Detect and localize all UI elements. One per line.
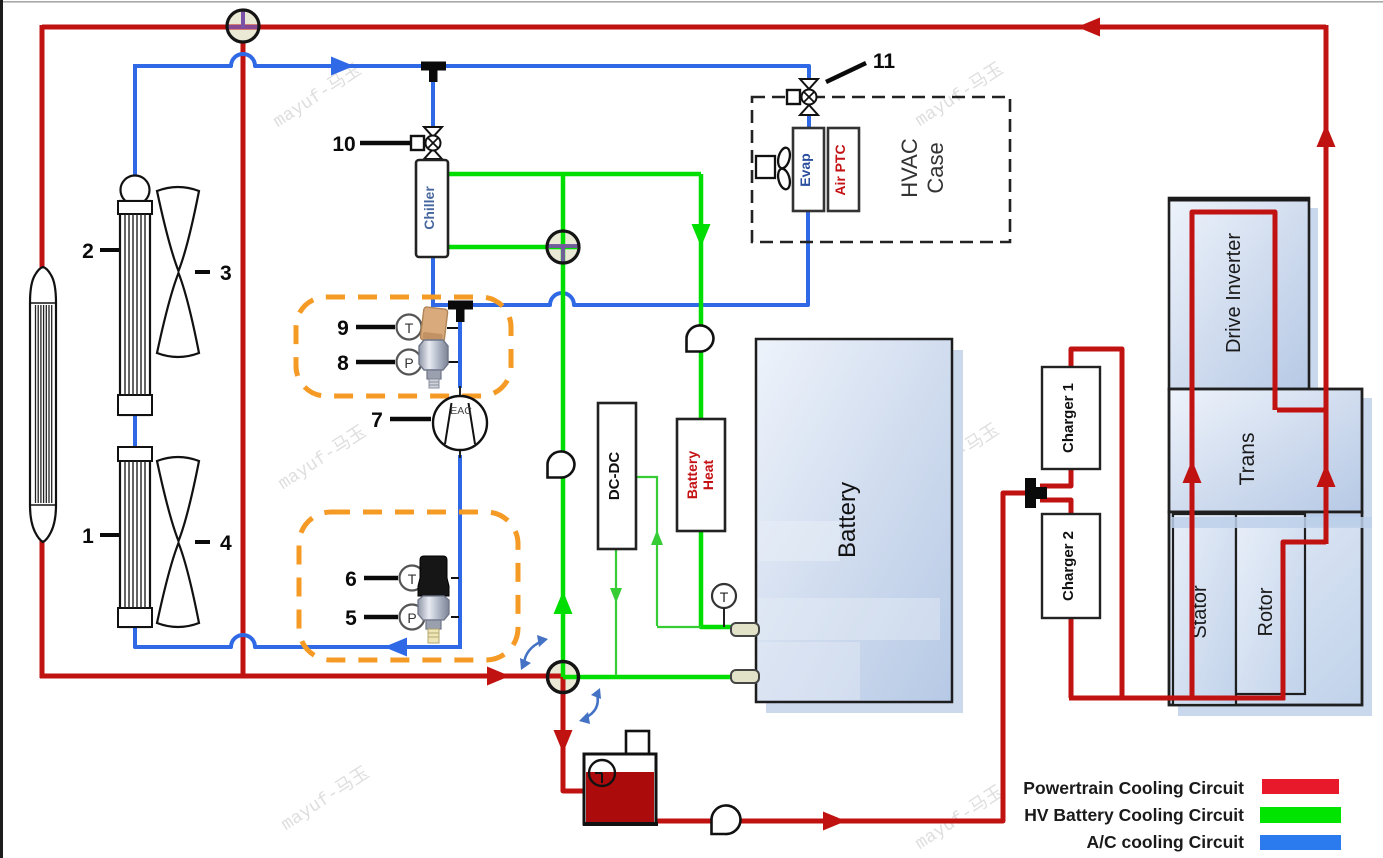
- fan 4: [157, 457, 199, 627]
- wire green junction to lower nozzle: [563, 675, 735, 680]
- arrow red left on top line: [1077, 18, 1100, 37]
- label 2: [100, 248, 119, 252]
- battery nozzle lower: [731, 670, 759, 683]
- label 7: [390, 417, 431, 422]
- svg-text:HVACCase: HVACCase: [897, 138, 948, 198]
- wire red left vertical upper: [40, 25, 45, 274]
- arrow red down below junction: [554, 730, 573, 753]
- radiator 1: [118, 447, 152, 627]
- drive inverter shadow: [1178, 208, 1318, 399]
- sensor tick 5: [451, 616, 459, 618]
- chiller: [416, 160, 448, 257]
- wire blue valve10 stem: [431, 80, 435, 128]
- label 9: [356, 325, 395, 330]
- charger 1 box: [1042, 367, 1100, 469]
- wire green chiller to mix valve: [447, 245, 556, 250]
- wire red bottom horizontal: [40, 674, 563, 679]
- svg-text:T: T: [720, 589, 729, 605]
- battery shadow: [766, 350, 963, 713]
- label 4: [195, 540, 210, 544]
- air ptc box: [828, 128, 859, 211]
- svg-text:T: T: [405, 320, 414, 336]
- sensor tick 8: [447, 361, 458, 363]
- svg-text:3: 3: [220, 262, 232, 285]
- svg-text:Drive Inverter: Drive Inverter: [1223, 233, 1245, 353]
- svg-text:10: 10: [332, 133, 355, 156]
- rotation arrow lower-right of junction: [585, 694, 598, 718]
- condenser receiver-drier: [30, 267, 56, 542]
- svg-text:Evap: Evap: [797, 153, 813, 186]
- sensor tick 6: [451, 577, 459, 579]
- stator box: [1173, 514, 1236, 705]
- arrow thin green up: [651, 530, 663, 545]
- svg-text:Charger 1: Charger 1: [1060, 383, 1077, 453]
- four-way valve circle top: [227, 10, 259, 42]
- svg-text:Chiller: Chiller: [421, 186, 437, 230]
- svg-text:T: T: [408, 571, 417, 587]
- label 1: [100, 533, 119, 537]
- wire red charger2 stub: [1040, 500, 1071, 514]
- label 3: [195, 270, 210, 274]
- drive inverter box U-DI: [1169, 198, 1309, 389]
- orange dashed box lower (sensors 5,6): [299, 512, 518, 660]
- P sensor circle 5: [400, 605, 425, 630]
- label 5: [364, 615, 398, 620]
- wire red bottom bus to rotor: [1069, 696, 1285, 701]
- wire red charger1 top loop: [1071, 349, 1122, 699]
- battery box: [756, 339, 952, 702]
- battery nozzle upper: [731, 623, 759, 636]
- wire red top horizontal: [42, 25, 1326, 30]
- wire red mid vertical: [241, 39, 246, 676]
- label 11: [826, 63, 866, 82]
- rotor box: [1236, 514, 1305, 694]
- wire red junction down to reservoir: [563, 677, 586, 791]
- svg-text:P: P: [407, 610, 416, 626]
- T-block junction chargers: [1025, 478, 1036, 508]
- pump ear green mid: [547, 451, 574, 477]
- svg-text:11: 11: [873, 50, 896, 73]
- charger 2 box: [1042, 514, 1100, 618]
- wire red left vertical lower: [40, 537, 45, 678]
- trans shadow: [1178, 398, 1372, 522]
- EAC compressor 7: [433, 386, 487, 458]
- svg-text:mayuf-马玉: mayuf-马玉: [275, 422, 371, 495]
- wire blue valve11 to evap: [807, 112, 811, 131]
- wire red trans junction horizontal: [1277, 408, 1326, 413]
- wire red right vertical upper: [1324, 25, 1329, 412]
- svg-text:P: P: [404, 355, 413, 371]
- wire thin green lower horizontal: [657, 626, 701, 628]
- arrow blue left on bottom line: [384, 638, 407, 657]
- svg-text:1: 1: [82, 525, 94, 548]
- arrow green down right branch: [692, 224, 711, 247]
- battery heat box: [677, 419, 725, 531]
- wire green battery heat to nozzle: [701, 529, 735, 627]
- wire blue mid horizontal with hump over green: [433, 210, 808, 305]
- frame border left: [0, 0, 3, 858]
- trans box: [1169, 389, 1362, 512]
- svg-text:A/C cooling Circuit: A/C cooling Circuit: [1087, 832, 1245, 852]
- svg-text:8: 8: [337, 352, 349, 375]
- stator rotor outer shadow: [1178, 521, 1372, 716]
- label 6: [364, 576, 398, 581]
- wire red charger1 stub: [1040, 469, 1071, 486]
- blower fan icon: [756, 146, 792, 190]
- svg-text:5: 5: [345, 607, 357, 630]
- svg-text:9: 9: [337, 317, 349, 340]
- svg-text:6: 6: [345, 568, 357, 591]
- wire green chiller top to right: [447, 172, 701, 177]
- wire red charger2 bottom drop: [1069, 617, 1074, 698]
- svg-text:Powertrain Cooling Circuit: Powertrain Cooling Circuit: [1023, 778, 1244, 798]
- wire green right drop to battery heat: [699, 174, 704, 421]
- svg-text:Rotor: Rotor: [1255, 587, 1277, 636]
- svg-text:7: 7: [371, 409, 383, 432]
- wire blue EAC down: [458, 455, 462, 649]
- valve 10: [411, 127, 442, 159]
- P sensor circle 8: [397, 350, 422, 375]
- wire red reservoir to right riser: [655, 493, 1029, 821]
- wire green mix valve vertical: [561, 174, 566, 665]
- pressure sensor icon silver: [419, 340, 448, 388]
- svg-text:mayuf-马玉: mayuf-马玉: [270, 60, 366, 133]
- fan 3: [157, 187, 199, 357]
- pressure sensor icon black: [418, 556, 449, 643]
- svg-text:HV Battery Cooling Circuit: HV Battery Cooling Circuit: [1024, 805, 1244, 825]
- wire thin green dcdc side branch: [636, 477, 657, 626]
- battery T sensor: [712, 584, 736, 608]
- rotation arrow upper-left of junction: [524, 641, 542, 664]
- svg-text:Charger 2: Charger 2: [1060, 531, 1077, 601]
- svg-text:Trans: Trans: [1236, 433, 1259, 486]
- wire blue top horizontal with hump over red: [135, 54, 809, 178]
- pump ear red bottom: [711, 805, 740, 834]
- arrow thin green down: [610, 588, 622, 603]
- valve 11: [787, 79, 818, 115]
- wire blue radiators link: [133, 414, 137, 449]
- arrow green up mix branch: [554, 591, 573, 614]
- radiator 2: [118, 176, 152, 416]
- label 10: [360, 141, 410, 146]
- arrow red up on right vertical: [1317, 124, 1336, 147]
- coolant reservoir: [583, 731, 658, 824]
- arrow red right on bottom-left line: [487, 667, 510, 686]
- T-fitting sensor manifold: [448, 301, 473, 310]
- svg-text:mayuf-马玉: mayuf-马玉: [912, 782, 1008, 855]
- orange dashed box upper (sensors 8,9): [296, 297, 511, 396]
- pump ear green right: [686, 325, 713, 351]
- wire blue bottom horizontal with hump over red: [135, 625, 460, 647]
- wire red right vertical lower: [1324, 408, 1329, 544]
- wire blue chiller down: [431, 255, 435, 307]
- svg-text:mayuf-马玉: mayuf-马玉: [912, 59, 1008, 132]
- svg-text:DC-DC: DC-DC: [606, 452, 623, 500]
- T sensor circle 9: [397, 315, 422, 340]
- svg-text:EAC: EAC: [450, 405, 472, 417]
- frame border top: [3, 1, 1383, 3]
- stator rotor outer box: [1169, 512, 1362, 705]
- evap box: [793, 128, 824, 211]
- arrow red up in stator loop: [1183, 460, 1202, 483]
- svg-text:Air PTC: Air PTC: [832, 144, 848, 195]
- svg-text:2: 2: [82, 240, 94, 263]
- junction valve circle bottom: [548, 662, 579, 693]
- T sensor circle 6: [400, 566, 425, 591]
- wire blue sensor manifold: [458, 320, 462, 388]
- wire red rotor riser with jog: [1283, 542, 1326, 700]
- svg-text:4: 4: [220, 532, 232, 555]
- wire thin green dcdc bottom branch: [615, 549, 617, 675]
- mix valve circle mid: [547, 231, 579, 263]
- temp sensor icon tan: [420, 307, 448, 343]
- dc-dc box: [598, 403, 636, 549]
- arrow red right on bottom line: [823, 812, 846, 831]
- sensor tick 9: [447, 327, 458, 329]
- label 8: [356, 360, 395, 365]
- svg-text:mayuf-马玉: mayuf-马玉: [278, 763, 374, 836]
- svg-text:Battery: Battery: [834, 482, 861, 558]
- HVAC case dashed box: [752, 97, 1010, 242]
- arrow red up in trans: [1317, 464, 1336, 487]
- arrow blue right on top line: [331, 57, 354, 76]
- wire red inverter loop: [1192, 212, 1275, 700]
- T-fitting top blue line: [421, 62, 446, 71]
